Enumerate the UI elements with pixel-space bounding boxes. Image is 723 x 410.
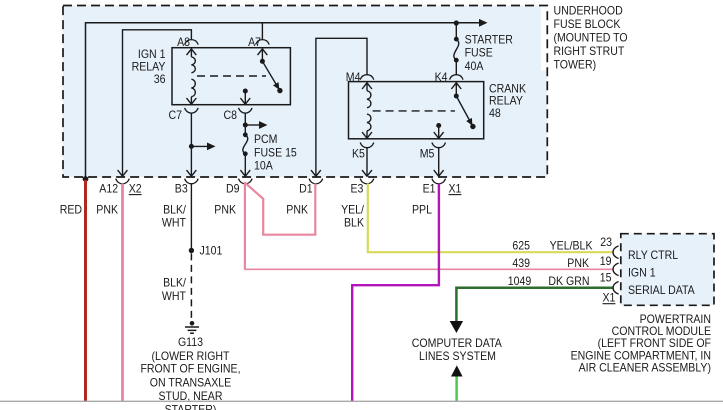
svg-text:PNK: PNK bbox=[286, 202, 308, 216]
powertrain control module (dashed box) bbox=[621, 234, 714, 306]
wire: PCM fuse down to pin D9 bbox=[244, 154, 246, 176]
crank relay switch output node to M5 bbox=[434, 123, 444, 138]
svg-text:PCM: PCM bbox=[254, 132, 278, 146]
svg-text:D1: D1 bbox=[299, 181, 313, 195]
svg-text:X1: X1 bbox=[603, 291, 616, 305]
svg-text:RLY CTRL: RLY CTRL bbox=[628, 248, 678, 262]
svg-text:439: 439 bbox=[512, 256, 530, 270]
crank relay dashed actuator link bbox=[373, 110, 455, 112]
wire PNK from D9 to PCM IGN 1 pin 19 bbox=[244, 183, 614, 269]
wire: C7 down to pin B3 bbox=[190, 113, 192, 176]
svg-text:C7: C7 bbox=[169, 108, 183, 122]
IGN1 relay coil bbox=[187, 49, 197, 104]
svg-text:D9: D9 bbox=[226, 181, 240, 195]
fuse STARTER FUSE 40A bbox=[454, 23, 513, 75]
IGN1 relay dashed actuator link bbox=[197, 75, 266, 77]
label: underhood fuse block location bbox=[554, 4, 628, 72]
connector pin C8 bbox=[224, 108, 253, 122]
relay box IGN 1 RELAY 36 bbox=[132, 47, 291, 105]
wire: battery feed rail from A12 node across to starter fuse tap bbox=[86, 19, 488, 179]
svg-text:1049: 1049 bbox=[508, 274, 532, 288]
svg-text:YEL/: YEL/ bbox=[341, 202, 364, 216]
wire DK GRN from PCM SERIAL DATA pin 15 bbox=[456, 288, 613, 321]
svg-text:COMPUTER DATA: COMPUTER DATA bbox=[412, 336, 502, 350]
svg-text:PNK: PNK bbox=[96, 202, 118, 216]
svg-text:E1: E1 bbox=[423, 181, 436, 195]
svg-text:TOWER): TOWER) bbox=[554, 57, 597, 71]
svg-text:PPL: PPL bbox=[412, 202, 432, 216]
crank relay switch bbox=[451, 83, 475, 129]
connector pin C7 bbox=[169, 108, 199, 122]
svg-text:C8: C8 bbox=[224, 108, 238, 122]
svg-text:WHT: WHT bbox=[162, 216, 187, 230]
svg-text:B3: B3 bbox=[175, 181, 188, 195]
wire RED from A12 bbox=[84, 180, 87, 402]
svg-text:19: 19 bbox=[600, 254, 612, 268]
svg-text:BLK/: BLK/ bbox=[163, 276, 186, 290]
connector pin D9 terminal at fuse block bottom edge bbox=[239, 170, 253, 184]
svg-text:DK GRN: DK GRN bbox=[548, 274, 589, 288]
wire PNK from X2 bbox=[121, 183, 124, 402]
wire: relay pin A7 up to rail bbox=[261, 23, 263, 40]
svg-text:IGN 1: IGN 1 bbox=[628, 265, 656, 279]
wire: C8 down to PCM fuse bbox=[244, 113, 246, 135]
svg-text:ON TRANSAXLE: ON TRANSAXLE bbox=[150, 375, 231, 389]
connector pin M4 bbox=[346, 70, 374, 84]
svg-text:10A: 10A bbox=[254, 158, 273, 172]
IGN1 relay switch bbox=[258, 49, 283, 93]
svg-text:48: 48 bbox=[489, 106, 501, 120]
svg-text:FUSE: FUSE bbox=[465, 46, 493, 60]
frame rule at diagram bottom bbox=[0, 400, 723, 402]
IGN1 relay switch output node to C8 bbox=[240, 89, 250, 105]
connector pin M5 bbox=[420, 143, 446, 161]
svg-text:15: 15 bbox=[600, 271, 612, 285]
svg-text:SERIAL DATA: SERIAL DATA bbox=[628, 283, 695, 297]
solid arrow down into computer data lines system bbox=[450, 321, 463, 333]
connector id X2 bbox=[129, 181, 142, 195]
label: computer data lines system bbox=[412, 336, 502, 363]
svg-text:RED: RED bbox=[60, 202, 83, 216]
svg-text:STARTER: STARTER bbox=[465, 33, 514, 47]
wire: D1 up and over to crank relay pin M4 bbox=[316, 38, 367, 175]
svg-text:X2: X2 bbox=[129, 181, 142, 195]
crank relay coil bbox=[362, 83, 372, 139]
junction node: starter fuse tap on rail bbox=[454, 20, 459, 25]
svg-text:(MOUNTED TO: (MOUNTED TO bbox=[554, 31, 628, 45]
connector id X1 bbox=[449, 181, 462, 195]
PCM pin 19 IGN 1, circuit 439 PNK bbox=[512, 254, 655, 280]
svg-text:UNDERHOOD: UNDERHOOD bbox=[554, 4, 623, 18]
connector pin K4 bbox=[435, 70, 464, 84]
wire PPL from E1 down to computer data lines bbox=[352, 183, 439, 401]
svg-text:PNK: PNK bbox=[214, 202, 236, 216]
wire BLK/WHT from B3 to splice J101 bbox=[190, 183, 192, 250]
connector pin B3 terminal at fuse block bottom edge bbox=[185, 170, 199, 184]
PCM pin 23 RLY CTRL, circuit 625 YEL/BLK bbox=[512, 235, 678, 262]
connector id X1 at PCM bbox=[603, 291, 616, 305]
label: powertrain control module location bbox=[571, 312, 711, 375]
svg-text:36: 36 bbox=[154, 72, 166, 86]
svg-text:RIGHT STRUT: RIGHT STRUT bbox=[554, 44, 625, 58]
wire LT GRN up to computer data lines arrow bbox=[455, 377, 458, 402]
svg-text:E3: E3 bbox=[351, 181, 364, 195]
svg-text:YEL/BLK: YEL/BLK bbox=[550, 239, 593, 253]
svg-text:J101: J101 bbox=[200, 244, 223, 258]
PCM pin 15 SERIAL DATA, circuit 1049 DK GRN bbox=[508, 271, 695, 298]
svg-text:FUSE BLOCK: FUSE BLOCK bbox=[554, 17, 621, 31]
connector pin K5 bbox=[352, 143, 374, 161]
svg-text:PNK: PNK bbox=[567, 256, 589, 270]
svg-text:AIR CLEANER ASSEMBLY): AIR CLEANER ASSEMBLY) bbox=[579, 361, 711, 375]
svg-text:BLK/: BLK/ bbox=[163, 202, 186, 216]
svg-text:G113: G113 bbox=[178, 335, 203, 349]
svg-text:WHT: WHT bbox=[162, 289, 187, 303]
wire: X2 feed up and over to IGN1 relay pin A8 bbox=[123, 30, 192, 176]
ground G113 bbox=[140, 321, 240, 410]
svg-text:FRONT OF ENGINE,: FRONT OF ENGINE, bbox=[140, 362, 240, 376]
pin labels A12 B3 D9 D1 E3 E1 bbox=[99, 181, 435, 195]
connector pin A8 bbox=[177, 35, 198, 49]
underhood fuse block (dashed box) bbox=[63, 6, 547, 178]
svg-text:A12: A12 bbox=[99, 181, 118, 195]
splice J101 bbox=[189, 244, 223, 258]
svg-text:M5: M5 bbox=[420, 147, 435, 161]
svg-text:K5: K5 bbox=[352, 147, 365, 161]
wire: M5 down to pin E1 bbox=[438, 148, 440, 176]
wire YEL/BLK from E3 to PCM RLY CTRL pin 23 bbox=[368, 183, 614, 252]
svg-text:BLK: BLK bbox=[344, 216, 364, 230]
wire PNK loop from D9 to D1 bbox=[244, 182, 315, 235]
solid arrow up from computer data lines system bbox=[451, 365, 463, 376]
junction node on C8 wire with branch arrow bbox=[243, 121, 268, 129]
connector pin A7 bbox=[248, 35, 269, 49]
svg-text:STARTER): STARTER) bbox=[165, 402, 217, 410]
wire: K5 down to pin E3 bbox=[366, 148, 368, 176]
connector pin X2 terminal at fuse block bottom edge bbox=[116, 170, 130, 184]
svg-text:40A: 40A bbox=[465, 59, 484, 73]
svg-text:X1: X1 bbox=[449, 181, 462, 195]
svg-text:LINES SYSTEM: LINES SYSTEM bbox=[419, 349, 496, 363]
wire BLK/WHT from J101 to ground G113 (dashed) bbox=[190, 253, 192, 318]
junction node on C7 wire with branch arrow bbox=[189, 143, 216, 151]
relay box CRANK RELAY 48 bbox=[349, 82, 527, 139]
fuse PCM FUSE 15 10A bbox=[243, 132, 297, 172]
connector pin E3 terminal at fuse block bottom edge bbox=[360, 170, 374, 184]
svg-text:625: 625 bbox=[512, 239, 530, 253]
connector pin D1 terminal at fuse block bottom edge bbox=[309, 170, 323, 184]
connector pin E1 terminal at fuse block bottom edge bbox=[432, 170, 446, 184]
svg-text:23: 23 bbox=[600, 235, 612, 249]
junction node at A12 feed bbox=[83, 176, 89, 182]
